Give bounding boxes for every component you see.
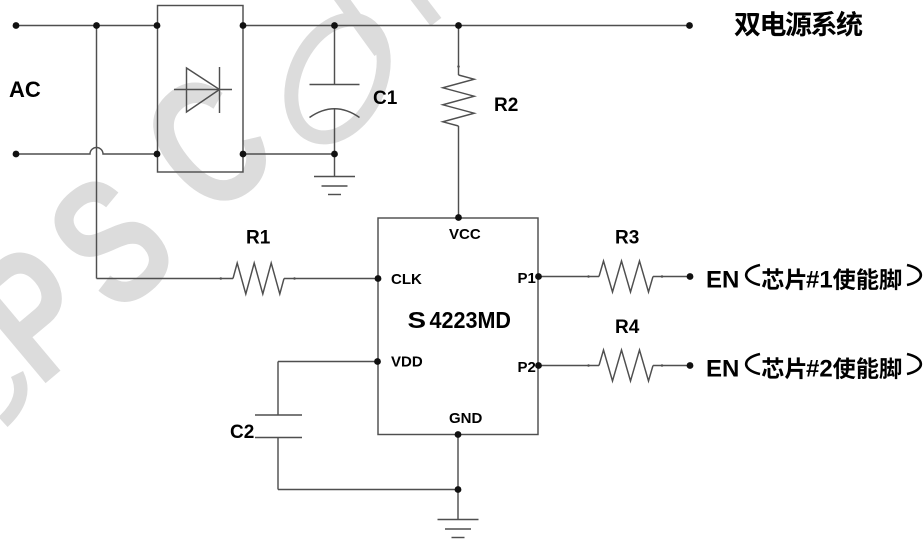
pin VDD dot bbox=[374, 358, 381, 365]
resistor R2 bbox=[458, 26, 460, 76]
svg-text:C1: C1 bbox=[373, 88, 398, 109]
wire R4 to EN terminal bbox=[653, 365, 690, 367]
resistor R3 bbox=[599, 261, 653, 292]
svg-text:AC: AC bbox=[9, 77, 41, 102]
svg-text:R2: R2 bbox=[494, 95, 518, 116]
capacitor C1 bbox=[334, 26, 336, 85]
svg-text:S: S bbox=[408, 307, 427, 333]
svg-text:VCC: VCC bbox=[449, 226, 481, 243]
resistor R4 bbox=[599, 350, 653, 381]
wire to R1 bbox=[97, 278, 234, 280]
resistor lead ticks bbox=[220, 277, 223, 280]
net label EN chip1 enable bbox=[706, 265, 921, 294]
junction node top rail / vertical bbox=[93, 22, 100, 29]
net label EN chip2 enable bbox=[706, 354, 921, 383]
watermark letter C bbox=[106, 35, 310, 252]
svg-text:VDD: VDD bbox=[391, 354, 423, 371]
terminal dual-supply net bbox=[686, 22, 693, 29]
wire top rail right bbox=[243, 25, 690, 27]
wire P1 to R3 bbox=[539, 276, 600, 278]
bridge pin top-left bbox=[154, 22, 161, 29]
svg-text:R1: R1 bbox=[246, 228, 271, 249]
wire R3 to EN terminal bbox=[653, 276, 690, 278]
junction R2 top bbox=[455, 22, 462, 29]
svg-text:GND: GND bbox=[449, 410, 483, 427]
wire vertical from top junction to R1 bbox=[96, 26, 98, 279]
wire C2 to ground rail bbox=[277, 438, 279, 490]
pin P1 dot bbox=[535, 273, 542, 280]
svg-text:EN: EN bbox=[706, 356, 739, 383]
bridge pin bottom-left bbox=[154, 151, 161, 158]
junction ground rail bbox=[455, 486, 462, 493]
junction C1 top / node VCC rail bbox=[331, 22, 338, 29]
watermark fragment below P bbox=[3, 374, 21, 422]
terminal AC bottom bbox=[13, 151, 20, 158]
net label dual supply system bbox=[735, 11, 863, 37]
terminal AC top bbox=[13, 22, 20, 29]
AC source label bbox=[9, 77, 41, 102]
diode D1 inside bridge bbox=[174, 89, 232, 91]
watermark letter fragment stems bbox=[338, 0, 436, 52]
wire P2 to R4 bbox=[539, 365, 600, 367]
ground symbol bottom bbox=[438, 519, 479, 521]
pin CLK dot bbox=[375, 275, 382, 282]
wire R1 to CLK bbox=[284, 278, 378, 280]
bridge pin bottom-right bbox=[240, 151, 247, 158]
op-amp U1 S4223MD box bbox=[378, 218, 538, 435]
svg-text:P1: P1 bbox=[518, 270, 536, 287]
wire bridge to C1 bottom bbox=[243, 153, 333, 155]
svg-text:P2: P2 bbox=[518, 359, 536, 376]
ground under C1 bbox=[334, 154, 336, 177]
wire bottom rail with hop bbox=[16, 148, 157, 155]
svg-text:CLK: CLK bbox=[391, 271, 422, 288]
terminal EN1 bbox=[687, 273, 694, 280]
terminal EN2 bbox=[687, 362, 694, 369]
IC name S4223MD bbox=[408, 307, 512, 333]
svg-text:R3: R3 bbox=[615, 228, 639, 249]
svg-text:#2: #2 bbox=[806, 356, 833, 383]
capacitor C2 bbox=[255, 414, 302, 416]
pin VCC dot bbox=[455, 214, 462, 221]
wire VDD to C2 bbox=[278, 361, 378, 363]
junction C1 bottom bbox=[331, 151, 338, 158]
svg-text:R4: R4 bbox=[615, 317, 640, 338]
bridge rectifier box bbox=[158, 6, 244, 173]
pin P2 dot bbox=[535, 362, 542, 369]
wire GND pin down bbox=[457, 435, 459, 520]
wire top rail left bbox=[16, 25, 157, 27]
pin GND dot bbox=[455, 431, 462, 438]
bridge pin top-right bbox=[240, 22, 247, 29]
svg-text:#1: #1 bbox=[806, 267, 833, 294]
watermark letter P bbox=[0, 206, 132, 418]
pin label VCC bbox=[391, 226, 536, 427]
watermark letter O bbox=[273, 5, 402, 153]
svg-text:EN: EN bbox=[706, 267, 739, 294]
svg-text:C2: C2 bbox=[230, 422, 254, 443]
watermark letter S bbox=[11, 135, 209, 347]
resistor R1 bbox=[233, 263, 284, 294]
svg-text:4223MD: 4223MD bbox=[430, 307, 512, 333]
